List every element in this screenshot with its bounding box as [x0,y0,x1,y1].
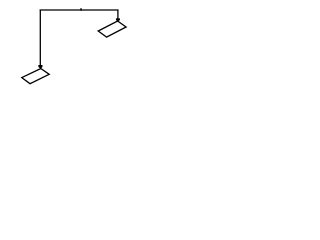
node A parallelogram [22,69,49,84]
wire left vertical [39,10,41,66]
wire right vertical [117,10,119,19]
tick junction on horizontal wire [80,8,81,11]
arrowhead into node A [38,65,42,69]
node B parallelogram [98,21,126,37]
arrowhead into node B [116,18,120,21]
horizontal wire [40,9,119,11]
